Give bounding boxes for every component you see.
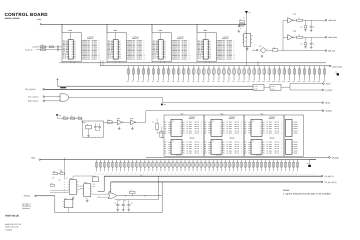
- svg-text:75A: 75A: [172, 141, 174, 143]
- svg-text:MEM (3:0): MEM (3:0): [229, 118, 235, 120]
- svg-text:W_CLK_IN: W_CLK_IN: [25, 49, 32, 51]
- resistor RN1-5: [147, 66, 150, 83]
- ground buffer U10A: [304, 28, 312, 32]
- svg-text:PL_AD1: PL_AD1: [267, 124, 272, 126]
- svg-text:1.8: 1.8: [249, 12, 251, 14]
- wire gate link: [264, 86, 270, 88]
- resistor RN2-25: [192, 160, 195, 175]
- svg-text:Notes:: Notes:: [283, 189, 290, 192]
- wire row2 feed: [157, 129, 164, 137]
- svg-text:P2(1:0): P2(1:0): [24, 195, 31, 198]
- svg-text:PL_AD5: PL_AD5: [187, 132, 192, 134]
- wire tie stub: [310, 160, 316, 165]
- IC U31: [82, 182, 92, 197]
- svg-text:DP_A0: DP_A0: [195, 142, 199, 144]
- resistor RN2-27: [200, 160, 203, 175]
- svg-text:(PL,A)(1:2): (PL,A)(1:2): [324, 175, 333, 178]
- svg-text:PL_AD1: PL_AD1: [187, 144, 192, 146]
- svg-text:DP_A3: DP_A3: [275, 128, 279, 130]
- svg-text:PLB5: PLB5: [294, 132, 297, 134]
- wire osc vertical: [245, 14, 247, 67]
- resistor RN1-33: [288, 66, 291, 83]
- svg-text:U10B: U10B: [293, 31, 296, 33]
- wire u30-u31: [78, 186, 82, 190]
- node osc in terminal: [238, 25, 240, 27]
- resistor RN2-50: [292, 160, 295, 175]
- svg-text:U30: U30: [70, 178, 73, 180]
- svg-text:DPRAM_A3: DPRAM_A3: [82, 58, 90, 60]
- wire HOT_CLK: [303, 19, 325, 21]
- svg-text:DP_A4: DP_A4: [195, 150, 199, 152]
- wire P2: [36, 195, 55, 197]
- svg-text:MEM (7:0): MEM (7:0): [132, 38, 138, 40]
- svg-text:WE_B: WE_B: [63, 57, 67, 59]
- wire vcc drop inside U2: [69, 33, 71, 40]
- resistor RN1-15: [197, 66, 200, 83]
- wire MCS1 seg1: [69, 97, 163, 99]
- resistor RN2-47: [280, 160, 283, 175]
- resistor RN2-33: [224, 160, 227, 175]
- svg-text:II DPRAM: II DPRAM: [229, 137, 234, 139]
- svg-text:PLB4: PLB4: [294, 130, 297, 132]
- wire MCLK rail: [100, 65, 329, 67]
- wire or-out: [117, 195, 162, 196]
- resistor RN2-41: [256, 160, 259, 175]
- node +5.0V terminal 2: [39, 159, 40, 160]
- svg-text:AD_B11: AD_B11: [227, 58, 232, 60]
- svg-text:G_RC07: G_RC07: [325, 89, 332, 92]
- node MCLK(1:0) terminal: [329, 65, 342, 68]
- buffer U12A: [117, 118, 123, 125]
- IC module box U15: [284, 115, 304, 156]
- resistor RN1-16: [202, 66, 205, 83]
- net header block U5: [222, 37, 228, 41]
- IC U2 body: [68, 40, 73, 60]
- ground osc-in: [238, 30, 241, 33]
- IC U5 body: [203, 40, 208, 60]
- net label column U3: [126, 40, 145, 60]
- IC module box U2: [62, 33, 81, 62]
- IC U14B body+pins: [245, 137, 283, 154]
- svg-text:PL_AD3: PL_AD3: [187, 148, 192, 150]
- svg-text:1. Ignore indicates that the p: 1. Ignore indicates that the part is not…: [283, 193, 331, 196]
- svg-text:xx xxx xx: xx xxx xx: [216, 154, 221, 156]
- wire bus drop B: [161, 182, 163, 213]
- wire into xtal box: [82, 118, 86, 122]
- net header block U3: [132, 37, 138, 41]
- wire and-in1: [45, 95, 60, 98]
- svg-text:PL_AD5: PL_AD5: [267, 152, 272, 154]
- svg-text:PL_AD2: PL_AD2: [187, 126, 192, 128]
- resistor RN1-30: [273, 66, 276, 83]
- svg-text:DP_A2: DP_A2: [195, 126, 199, 128]
- svg-text:PL_AD5: PL_AD5: [227, 152, 232, 154]
- svg-text:PL_AD4: PL_AD4: [187, 130, 192, 132]
- wire P2 bend: [55, 196, 162, 213]
- svg-text:DP_A1: DP_A1: [195, 124, 199, 126]
- svg-text:DP_A5: DP_A5: [235, 152, 239, 154]
- wire vdrop lower: [64, 158, 66, 172]
- svg-text:2A 2B: 2A 2B: [271, 88, 274, 90]
- svg-text:U10A: U10A: [293, 14, 296, 16]
- label row comb1: [240, 81, 320, 83]
- notes line 1: [283, 193, 331, 196]
- resistor RN2-43: [264, 160, 267, 175]
- node +5.0V terminal: [40, 24, 41, 25]
- svg-text:AD_B11: AD_B11: [182, 58, 187, 60]
- resistor RN2-10: [131, 160, 134, 175]
- resistor R9: [273, 47, 278, 51]
- resistor RN1-26: [253, 66, 256, 83]
- IC U3 body: [113, 40, 118, 60]
- node T_CLK label: [32, 47, 37, 49]
- IC U3 refdes: [114, 29, 118, 32]
- wire rnet lower: [53, 171, 65, 180]
- resistor R33: [51, 183, 55, 186]
- net tie 1.8 C: [307, 163, 311, 167]
- svg-text:DP_A3: DP_A3: [195, 128, 199, 130]
- resistor RN2-9: [127, 160, 130, 175]
- svg-text:PLB0: PLB0: [294, 142, 297, 144]
- label bottom U12: [176, 154, 181, 156]
- svg-text:DP_A5: DP_A5: [195, 132, 199, 134]
- node PL terminal: [321, 175, 334, 178]
- svg-text:75A: 75A: [212, 141, 214, 143]
- resistor RN1-10: [172, 66, 175, 83]
- svg-text:PL_AD0: PL_AD0: [227, 122, 232, 124]
- svg-text:PL_AD3: PL_AD3: [187, 128, 192, 130]
- crystal box X1: [83, 121, 104, 137]
- svg-text:PL_AD4: PL_AD4: [227, 130, 232, 132]
- svg-text:MEM (3:0): MEM (3:0): [269, 118, 275, 120]
- svg-text:1A 1B: 1A 1B: [271, 86, 274, 88]
- resistor RN1-14: [192, 66, 195, 83]
- resistor R32: [60, 171, 65, 175]
- net label column U2: [81, 40, 100, 60]
- wire osc feed: [57, 116, 82, 118]
- ground U12B: [131, 127, 134, 130]
- resistor RN1-27: [258, 66, 261, 83]
- svg-text:xx xxx xx: xx xxx xx: [176, 154, 181, 156]
- resistor RN1-35: [298, 66, 301, 83]
- label noise osc: [240, 18, 268, 51]
- svg-text:RADDN: RADDN: [325, 110, 332, 113]
- resistor RN1-20: [222, 66, 225, 83]
- IC U13B body+pins: [205, 137, 243, 154]
- resistor RN1-21: [227, 66, 230, 83]
- ground U11: [261, 54, 264, 57]
- resistor RN1-31: [278, 66, 281, 83]
- svg-text:PLB3: PLB3: [294, 128, 297, 130]
- wire vcc drop inside U4: [159, 33, 161, 40]
- comp U32: [92, 175, 98, 181]
- svg-text:MEM (7:0): MEM (7:0): [177, 38, 183, 40]
- wire vcc drop inside U3: [114, 33, 116, 40]
- resistor RN2-8: [123, 160, 126, 175]
- wire MCS1 jog: [161, 98, 163, 103]
- node SP1_A1 terminal: [43, 96, 45, 98]
- svg-text:OSC: OSC: [244, 37, 247, 39]
- svg-text:DP_A0: DP_A0: [195, 122, 199, 124]
- IC U4 refdes: [159, 29, 163, 32]
- resistor RN1-34: [293, 66, 296, 83]
- svg-text:U12B: U12B: [130, 118, 133, 120]
- svg-text:PL_AD5: PL_AD5: [187, 152, 192, 154]
- svg-text:PLB2: PLB2: [294, 126, 297, 128]
- resistor RN2-21: [176, 160, 179, 175]
- resistor RN2-19: [167, 160, 170, 175]
- ground C22: [122, 208, 125, 211]
- resistor RN2-40: [252, 160, 255, 175]
- IC module box U14: [244, 115, 284, 156]
- svg-text:DP_A3: DP_A3: [235, 128, 239, 130]
- gate U9A AND: [60, 94, 68, 101]
- resistor RN2-35: [232, 160, 235, 175]
- svg-text:xx xxx xx: xx xxx xx: [256, 154, 261, 156]
- wire Y2 out: [252, 49, 257, 51]
- wire RADDN: [146, 110, 322, 112]
- node P2(1:0) label: [24, 195, 31, 198]
- svg-text:DPRAM_A3: DPRAM_A3: [127, 58, 135, 60]
- svg-text:DP_A5: DP_A5: [235, 132, 239, 134]
- capacitor C14 shunt: [310, 20, 315, 28]
- resistor RN2-11: [135, 160, 138, 175]
- title CONTROL BOARD: [5, 12, 49, 17]
- svg-text:SP1_A1(4:0): SP1_A1(4:0): [28, 96, 39, 99]
- svg-text:PL_AD0: PL_AD0: [187, 142, 192, 144]
- wire cap rail: [115, 199, 159, 201]
- resistor RN2-45: [272, 160, 275, 175]
- svg-text:DP_A0: DP_A0: [275, 122, 279, 124]
- svg-text:PLB0: PLB0: [294, 122, 297, 124]
- resistor RN2-44: [268, 160, 271, 175]
- svg-text:PL_AD4: PL_AD4: [227, 150, 232, 152]
- wire feed module x115.7: [115, 61, 117, 62]
- wire DIF_CLK: [283, 50, 325, 52]
- wire feed module x205.7: [205, 61, 207, 62]
- wire bus drop A: [157, 176, 159, 199]
- wire T_CLK: [36, 46, 62, 48]
- svg-text:1.8: 1.8: [164, 104, 166, 106]
- svg-text:DP_A1: DP_A1: [275, 144, 279, 146]
- svg-text:DP_A1: DP_A1: [275, 124, 279, 126]
- diode D1: [130, 190, 135, 196]
- ground X1: [87, 134, 90, 137]
- svg-text:WE_B: WE_B: [108, 57, 112, 59]
- resistor R114 shunt: [300, 20, 307, 28]
- wire G_RC07: [290, 89, 322, 91]
- node MCS1 terminal: [322, 102, 330, 105]
- ground U12A: [118, 127, 121, 130]
- svg-text:+5.0V: +5.0V: [59, 169, 62, 171]
- node DP_A1(4:0) label: [25, 88, 35, 91]
- capacitor C1: [78, 116, 82, 120]
- svg-text:PL_AD4: PL_AD4: [187, 150, 192, 152]
- node W_CLK_IN label: [25, 49, 32, 51]
- svg-text:RC07: RC07: [326, 83, 331, 86]
- gate U8A: [253, 84, 264, 90]
- svg-text:PL_AD1: PL_AD1: [227, 144, 232, 146]
- svg-text:PL_AD5: PL_AD5: [227, 132, 232, 134]
- svg-text:II DPRAM: II DPRAM: [189, 137, 194, 139]
- resistor RN1-25: [248, 66, 251, 83]
- node HOT_CLK2 terminal: [325, 36, 337, 39]
- svg-text:U11: U11: [259, 45, 262, 47]
- transistor Q1: [63, 198, 73, 213]
- resistor R3: [240, 23, 245, 25]
- svg-text:DP_A4: DP_A4: [235, 130, 239, 132]
- resistor RN1-17: [207, 66, 210, 83]
- svg-text:DP_A1: DP_A1: [195, 144, 199, 146]
- wire osc in: [240, 25, 244, 27]
- resistor RN2-2: [99, 160, 102, 175]
- node DP_A1 terminal: [43, 89, 45, 91]
- label bus weight: [60, 86, 66, 89]
- svg-text:DP_A2: DP_A2: [275, 146, 279, 148]
- resistor RN2-51: [296, 160, 299, 175]
- IC module box U12: [164, 115, 204, 156]
- IC U4 pins: [153, 41, 167, 60]
- svg-text:CONTROL BOARD: CONTROL BOARD: [5, 12, 49, 17]
- svg-text:PL_AD3: PL_AD3: [227, 128, 232, 130]
- wire W_CLK_IN: [36, 49, 62, 51]
- resistor RN1-3: [137, 66, 140, 83]
- wire and-in2: [45, 100, 60, 101]
- wire +5V drop to U3: [106, 24, 108, 32]
- resistor RN2-26: [196, 160, 199, 175]
- resistor RN1-23: [237, 66, 240, 83]
- wire bus A under modules: [60, 62, 327, 64]
- svg-text:MEM (3:0): MEM (3:0): [189, 118, 195, 120]
- svg-text:PL_AD2: PL_AD2: [267, 146, 272, 148]
- IC U3 pins: [108, 41, 122, 60]
- wire u30 top: [73, 176, 95, 180]
- label bottom U13: [216, 154, 221, 156]
- wire DP_A1 bus: [44, 88, 253, 90]
- net tie 1.8 A: [161, 104, 166, 107]
- resistor RN1-36: [303, 66, 306, 83]
- resistor RN2-46: [276, 160, 279, 175]
- IC U13A body+pins: [205, 117, 243, 137]
- svg-text:PL_AD3: PL_AD3: [267, 128, 272, 130]
- buffer U12B: [130, 118, 136, 125]
- wire xtal out: [104, 121, 118, 123]
- svg-text:AD_B11: AD_B11: [92, 58, 97, 60]
- power flag VCC: [56, 78, 58, 86]
- wire net L1: [58, 85, 254, 87]
- resistor RN2-31: [216, 160, 219, 175]
- resistor RN1-32: [283, 66, 286, 83]
- wire buf out: [136, 121, 146, 123]
- resistor RN1-13: [187, 66, 190, 83]
- node P2 terminal: [35, 195, 37, 197]
- svg-text:DPRAM_A3: DPRAM_A3: [172, 58, 180, 60]
- resistor RN2-42: [260, 160, 263, 175]
- wire feed U4 to rail: [257, 61, 259, 65]
- resistor RN1-7: [157, 66, 160, 83]
- wire feed module x164.2: [163, 61, 165, 62]
- resistor RN1-24: [242, 66, 245, 83]
- resistor RN2-32: [220, 160, 223, 175]
- resistor RN2-5: [111, 160, 114, 175]
- svg-text:WE_B: WE_B: [198, 57, 202, 59]
- svg-text:R101: R101: [41, 45, 44, 47]
- svg-text:U12A: U12A: [117, 118, 120, 120]
- svg-text:WE_B: WE_B: [153, 57, 157, 59]
- IC U12A body+pins: [165, 117, 203, 137]
- wire feed module x74.2: [73, 61, 75, 62]
- svg-text:PL_AD3: PL_AD3: [227, 148, 232, 150]
- node RA41 label: [28, 100, 38, 103]
- resistor RN2-12: [139, 160, 142, 175]
- capacitor C22: [122, 200, 125, 209]
- resistor RN2-22: [180, 160, 183, 175]
- resistor RN1-39: [318, 66, 321, 83]
- resistor RN2-36: [236, 160, 239, 175]
- wire U11 out: [266, 49, 272, 51]
- resistor RN2-30: [212, 160, 215, 175]
- wire feed module x209.2: [208, 61, 210, 62]
- IC module box U3: [107, 33, 126, 62]
- wire feed module x119.2: [118, 61, 120, 62]
- svg-text:1A 1B: 1A 1B: [254, 86, 257, 88]
- IC U5 refdes: [204, 29, 208, 32]
- svg-text:(Sheet 10 of 23): (Sheet 10 of 23): [5, 226, 19, 229]
- resistor R102: [41, 49, 46, 51]
- resistor RN2-16: [155, 160, 158, 175]
- IC U15B body+pins: [286, 139, 298, 154]
- wire +5V rail 2: [40, 159, 316, 161]
- svg-text:1.8: 1.8: [59, 115, 61, 117]
- IC U15A body+pins: [286, 119, 298, 136]
- svg-text:RA(4:1)(4:0): RA(4:1)(4:0): [28, 100, 38, 103]
- svg-text:DP_A1(4:0): DP_A1(4:0): [25, 88, 35, 91]
- svg-text:74A: 74A: [252, 121, 254, 123]
- svg-text:MCLK(1:0): MCLK(1:0): [333, 66, 343, 69]
- svg-text:DP_A4: DP_A4: [235, 150, 239, 152]
- oscillator Y2: [242, 32, 252, 47]
- resistor RN2-4: [107, 160, 110, 175]
- svg-text:PLB5: PLB5: [294, 152, 297, 154]
- resistor RN1-38: [313, 66, 316, 83]
- wire DP_PL bus: [111, 181, 321, 183]
- wire feed module x70.7: [70, 61, 72, 62]
- resistor RN1-28: [263, 66, 266, 83]
- svg-text:PL_AD2: PL_AD2: [227, 126, 232, 128]
- svg-text:AD_B11: AD_B11: [137, 58, 142, 60]
- net header block U4: [177, 37, 183, 41]
- svg-text:PL_AD4: PL_AD4: [267, 130, 272, 132]
- resistor RN1-29: [268, 66, 271, 83]
- wire DP_PL bend: [110, 182, 112, 193]
- wire junctions: [50, 191, 68, 193]
- IC U4 body: [158, 40, 163, 60]
- svg-text:DP_A4: DP_A4: [275, 150, 279, 152]
- IC U14A body+pins: [245, 117, 283, 137]
- svg-text:74A: 74A: [172, 121, 174, 123]
- wire PL bend: [98, 176, 105, 191]
- node RC07 terminal: [323, 83, 331, 86]
- resistor RN2-17: [159, 160, 162, 175]
- wire bus A drop1: [101, 61, 103, 66]
- buffer U10A: [283, 14, 296, 23]
- label row comb2: [97, 174, 318, 176]
- svg-text:PL_AD2: PL_AD2: [187, 146, 192, 148]
- resistor RN1-6: [152, 66, 155, 83]
- svg-text:75A: 75A: [252, 141, 254, 143]
- IC U5 pins: [198, 41, 212, 60]
- resistor RN1-19: [217, 66, 220, 83]
